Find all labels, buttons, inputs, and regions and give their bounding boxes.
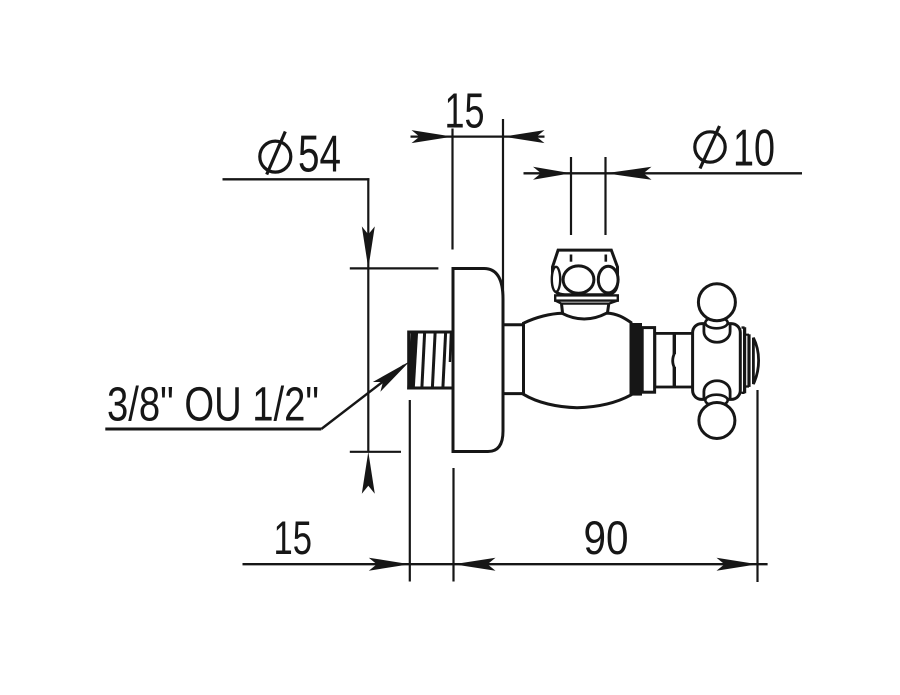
top neck ring: [705, 317, 727, 328]
right ball side: [598, 266, 618, 293]
collar ring: [642, 328, 654, 393]
dim symbol diameter 54: [260, 132, 291, 175]
extension line 10 left: [570, 157, 572, 235]
threaded nipple: [407, 331, 453, 390]
bottom dim line: [243, 563, 768, 565]
bonnet step: [555, 301, 618, 304]
leader arrowhead: [373, 361, 410, 392]
svg-text:10: 10: [733, 120, 775, 178]
valve body: [524, 313, 632, 408]
handle balls tub: [553, 267, 618, 295]
chamfer arc: [673, 353, 675, 369]
svg-text:15: 15: [445, 83, 485, 138]
arrow bottom at flange left: [454, 558, 496, 571]
outlet cap face: [753, 338, 758, 384]
svg-text:3/8" OU 1/2": 3/8" OU 1/2": [107, 379, 319, 432]
bonnet band: [555, 295, 618, 300]
outlet ring 2: [747, 334, 750, 387]
extension line left of 15 top: [451, 129, 453, 250]
dim leader line 54 vertical: [367, 178, 369, 452]
arrow 15 top left: [412, 130, 453, 143]
svg-text:15: 15: [274, 511, 313, 564]
outlet ring 1 steps: [742, 328, 745, 393]
dim leader line 54 horizontal: [223, 178, 370, 180]
front ball: [563, 266, 594, 293]
tick at flange top: [350, 267, 439, 269]
outlet ring 2 steps: [746, 335, 750, 387]
extension line bottom right: [756, 390, 758, 582]
bonnet neck right line: [607, 304, 608, 314]
union nut divider: [673, 333, 676, 354]
arrow 10 left: [533, 167, 571, 180]
left sliver ball: [552, 267, 560, 292]
leader line to thread: [321, 366, 404, 430]
svg-text:90: 90: [584, 511, 629, 564]
bonnet neck left line: [562, 304, 563, 314]
arrow 54 down: [362, 226, 375, 268]
arrow bottom at thread start: [369, 558, 410, 571]
handle hub: [693, 324, 741, 400]
outlet ring 1: [743, 327, 746, 393]
union pipe: [655, 333, 694, 387]
dim symbol diameter 10: [695, 126, 725, 169]
arrow 10 right: [606, 167, 652, 180]
wall flange: [453, 269, 503, 452]
handle cap trapezoid: [553, 250, 618, 267]
arrow bottom right end: [717, 558, 758, 571]
extension line bottom flange: [452, 468, 454, 582]
body end band: [632, 323, 642, 396]
tick at flange bottom: [350, 451, 401, 453]
extension line right of 15 top: [502, 119, 504, 300]
extension line 10 right: [604, 157, 606, 235]
dim line 10: [524, 172, 803, 174]
neck between flange and body: [503, 325, 524, 394]
top ball: [698, 284, 735, 321]
dim line 15 top: [411, 136, 545, 138]
stem mark right: [604, 255, 607, 262]
bottom neck ring: [705, 395, 727, 406]
bottom ball: [699, 403, 735, 439]
stem mark left: [570, 255, 573, 262]
label underline: [105, 428, 321, 431]
top socket: [704, 325, 730, 343]
svg-text:54: 54: [298, 126, 341, 184]
bottom socket: [704, 381, 730, 399]
arrow 54 up: [362, 452, 375, 494]
extension line bottom thread: [409, 400, 411, 582]
arrow 15 top right: [503, 130, 545, 143]
